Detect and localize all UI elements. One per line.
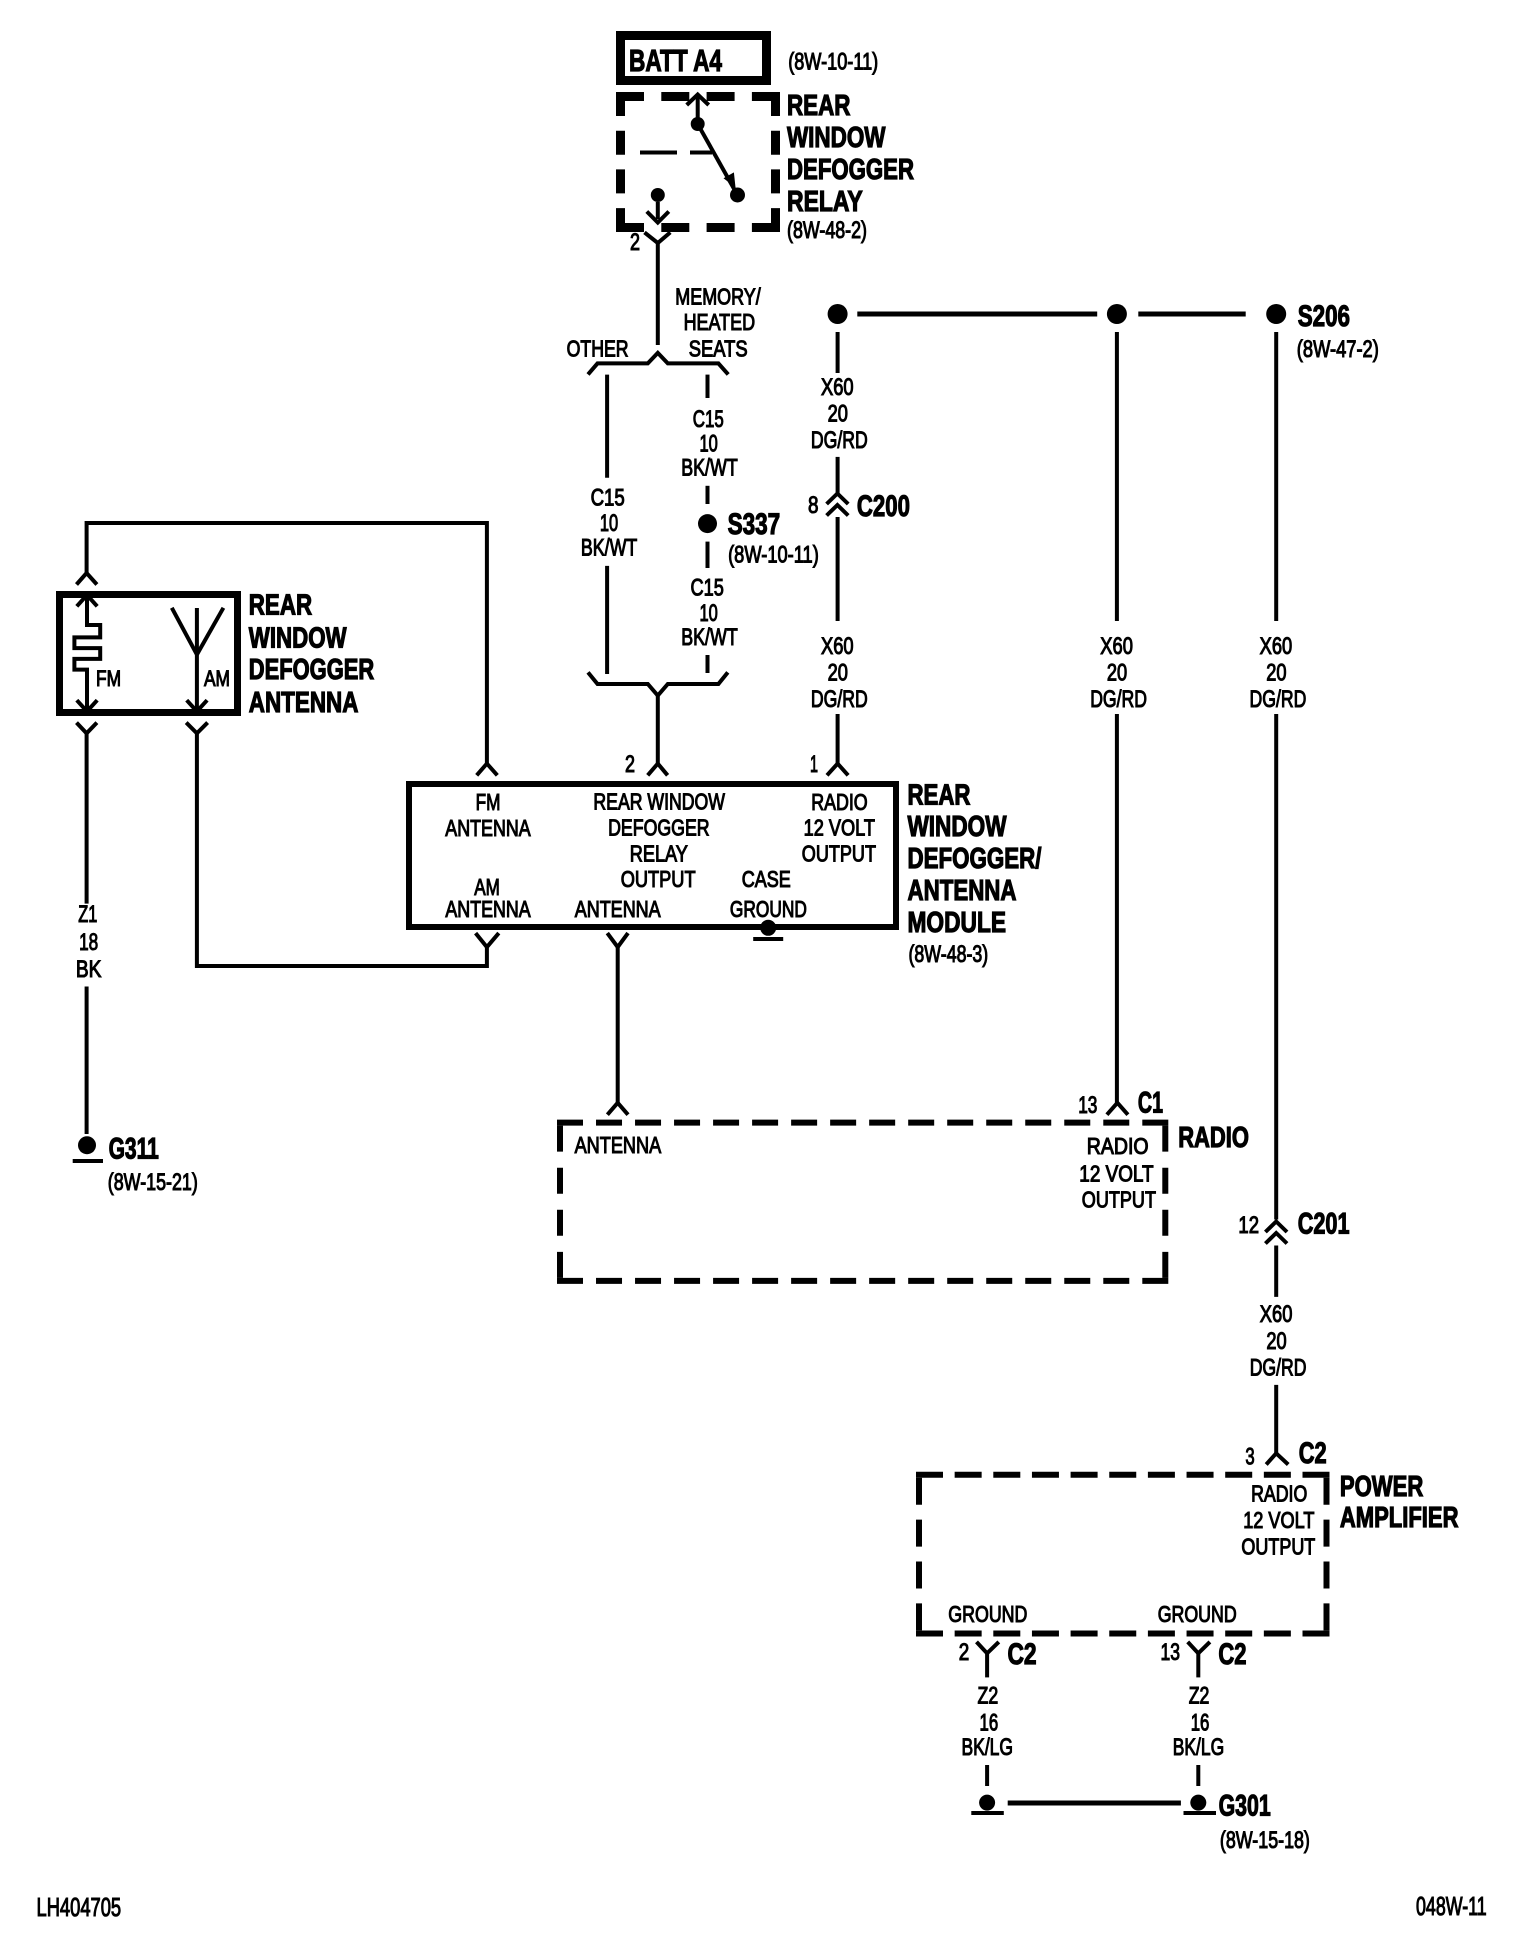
svg-text:OTHER: OTHER (567, 336, 629, 362)
wire X60 branch B (to radio) (1115, 332, 1119, 621)
svg-text:DEFOGGER: DEFOGGER (249, 654, 374, 686)
wire amplifier pin 2 to ground (985, 1765, 989, 1786)
svg-text:16: 16 (980, 1710, 999, 1737)
wire branch A to module pin 1 (836, 714, 840, 764)
label REAR WINDOW DEFOGGER/ANTENNA MODULE (908, 780, 1042, 969)
wire module antenna to radio (616, 947, 620, 1103)
svg-text:BK/LG: BK/LG (1173, 1734, 1225, 1761)
bus wire segment S206 left (857, 312, 1097, 317)
svg-text:RADIO: RADIO (811, 789, 868, 815)
svg-text:16: 16 (1191, 1710, 1210, 1737)
wire label C15 10 BK/WT right lower (681, 575, 738, 651)
ground dot left (971, 1795, 1004, 1813)
FM antenna element (resistive grid symbol) (74, 595, 100, 711)
svg-text:X60: X60 (1260, 633, 1293, 660)
label REAR WINDOW DEFOGGER ANTENNA (249, 590, 374, 719)
svg-text:20: 20 (1107, 660, 1127, 687)
connector half at module FM pin (477, 764, 498, 776)
svg-text:3: 3 (1245, 1444, 1254, 1471)
wire branch C to amplifier pin 3 (1274, 1385, 1278, 1453)
wire X60 branch C upper (1274, 332, 1278, 621)
svg-text:ANTENNA: ANTENNA (575, 1132, 662, 1158)
svg-text:ANTENNA: ANTENNA (575, 896, 662, 922)
svg-text:FM: FM (96, 666, 121, 691)
wire left option branch lower (605, 566, 609, 674)
svg-text:(8W-10-11): (8W-10-11) (788, 49, 878, 76)
options split brace (588, 353, 728, 375)
wire FM antenna path (87, 523, 487, 764)
svg-text:20: 20 (828, 401, 848, 428)
wire label X60 20 DG/RD branch C lower (1250, 1301, 1307, 1382)
svg-text:C2: C2 (1299, 1437, 1327, 1470)
relay armature diagonal with arrowhead (698, 124, 738, 195)
svg-text:RADIO: RADIO (1087, 1133, 1149, 1159)
svg-text:AMPLIFIER: AMPLIFIER (1340, 1502, 1459, 1534)
label MEMORY/HEATED SEATS (675, 284, 761, 362)
svg-text:BK: BK (76, 956, 102, 983)
label REAR WINDOW DEFOGGER RELAY (787, 90, 914, 244)
svg-text:OUTPUT: OUTPUT (802, 840, 876, 866)
svg-text:REAR: REAR (249, 590, 312, 622)
connector half at radio pin 13 (1107, 1103, 1128, 1115)
svg-text:C15: C15 (591, 485, 625, 512)
splice S337 (698, 508, 819, 569)
connector half below amplifier pin 13 (1188, 1642, 1210, 1678)
relay internal dashed line (640, 151, 712, 155)
svg-text:2: 2 (625, 751, 635, 778)
wire right branch to splice (706, 486, 710, 504)
label S206 (1297, 300, 1379, 363)
wire amplifier pin 13 to ground (1196, 1765, 1200, 1786)
wire relay pin2 down to options split (656, 243, 660, 345)
svg-text:13: 13 (1078, 1092, 1097, 1119)
module pin label REAR WINDOW DEFOGGER RELAY OUTPUT (593, 789, 725, 892)
ground G301 (1184, 1790, 1310, 1854)
wire label X60 20 DG/RD branch C (1250, 633, 1307, 713)
relay contact arrow up (687, 95, 709, 119)
wire label C15 10 BK/WT right upper (681, 406, 738, 482)
svg-text:12 VOLT: 12 VOLT (1079, 1160, 1153, 1186)
wire below S337 (706, 542, 710, 568)
svg-text:DG/RD: DG/RD (1250, 686, 1307, 713)
connector half at module pin 2 (648, 764, 668, 776)
label POWER AMPLIFIER (1340, 1471, 1459, 1534)
svg-text:C201: C201 (1298, 1208, 1350, 1241)
svg-text:8: 8 (808, 492, 819, 519)
relay contact dot lower right (730, 188, 745, 203)
wire label C15 10 BK/WT left (581, 485, 638, 562)
svg-text:S206: S206 (1298, 300, 1350, 333)
svg-text:(8W-48-2): (8W-48-2) (787, 217, 867, 244)
svg-text:RADIO: RADIO (1251, 1481, 1307, 1507)
wire linking grounds (1008, 1801, 1181, 1806)
wire label Z1 18 BK (76, 901, 102, 983)
radio pin label RADIO 12 VOLT OUTPUT (1079, 1133, 1156, 1213)
svg-text:GROUND: GROUND (948, 1601, 1027, 1627)
relay K1 dashed box REAR WINDOW DEFOGGER RELAY (616, 92, 780, 232)
connector half at module AM pin (476, 933, 499, 947)
svg-text:BK/WT: BK/WT (681, 624, 738, 651)
svg-text:ANTENNA: ANTENNA (249, 687, 359, 719)
svg-text:(8W-10-11): (8W-10-11) (728, 542, 819, 569)
connector half at radio antenna input (607, 1103, 628, 1115)
svg-text:(8W-15-18): (8W-15-18) (1220, 1827, 1310, 1854)
connector half at module pin 1 (827, 764, 848, 776)
svg-text:OUTPUT: OUTPUT (1082, 1187, 1156, 1213)
svg-text:2: 2 (959, 1639, 970, 1666)
svg-text:BATT A4: BATT A4 (629, 43, 723, 78)
svg-text:ANTENNA: ANTENNA (445, 815, 531, 841)
connector C200 chevrons (827, 494, 849, 516)
AM antenna element (172, 608, 224, 712)
svg-text:BK/WT: BK/WT (681, 455, 738, 482)
ground G311 (73, 1133, 198, 1196)
svg-text:REAR: REAR (908, 780, 971, 812)
wire branch A to C200 (836, 457, 840, 493)
svg-text:20: 20 (1266, 1328, 1286, 1355)
svg-text:(8W-48-3): (8W-48-3) (909, 941, 989, 968)
svg-text:FM: FM (476, 789, 501, 815)
fuse box BATT A4 (621, 36, 767, 81)
svg-text:REAR WINDOW: REAR WINDOW (593, 789, 725, 815)
svg-text:13: 13 (1161, 1639, 1181, 1666)
svg-text:GROUND: GROUND (1158, 1601, 1237, 1627)
wire merge to module pin 2 (656, 696, 660, 764)
connector half above antenna box FM (77, 573, 97, 585)
connector half below amplifier pin 2 (977, 1642, 999, 1678)
svg-text:RELAY: RELAY (787, 186, 863, 218)
svg-text:C1: C1 (1138, 1086, 1163, 1119)
module pin label FM ANTENNA (445, 789, 531, 841)
svg-text:(8W-15-21): (8W-15-21) (108, 1169, 198, 1196)
svg-text:C15: C15 (693, 406, 724, 433)
svg-text:DEFOGGER: DEFOGGER (608, 815, 710, 841)
svg-text:10: 10 (600, 510, 618, 537)
svg-text:GROUND: GROUND (730, 896, 807, 922)
connector half below antenna box FM (77, 723, 97, 734)
svg-text:X60: X60 (1100, 633, 1133, 660)
power amplifier dashed box (916, 1475, 1330, 1634)
wire label X60 20 DG/RD branch B (1090, 633, 1147, 713)
connector half at amplifier pin 3 (1266, 1453, 1288, 1464)
svg-text:DEFOGGER/: DEFOGGER/ (908, 843, 1042, 875)
wire AM antenna path (197, 733, 487, 966)
wire label X60 20 DG/RD branch A lower (811, 633, 868, 713)
svg-text:OUTPUT: OUTPUT (621, 866, 696, 892)
svg-text:REAR: REAR (787, 90, 851, 122)
svg-text:RELAY: RELAY (630, 840, 688, 866)
wire left option branch upper (605, 375, 609, 478)
wire FM to ground lower (85, 987, 89, 1135)
wire branch A below C200 (836, 517, 840, 621)
svg-text:2: 2 (630, 229, 640, 256)
svg-text:HEATED: HEATED (684, 309, 756, 335)
wire right option branch upper (706, 375, 710, 398)
svg-text:DEFOGGER: DEFOGGER (787, 154, 914, 186)
svg-text:X60: X60 (1260, 1301, 1293, 1328)
module pin label AM ANTENNA (445, 874, 531, 922)
wire branch C middle (1274, 714, 1278, 1220)
svg-text:18: 18 (79, 929, 98, 956)
svg-text:OUTPUT: OUTPUT (1241, 1533, 1315, 1559)
svg-text:(8W-47-2): (8W-47-2) (1297, 336, 1379, 363)
svg-text:Z2: Z2 (1189, 1683, 1210, 1710)
wire FM to ground upper (85, 733, 89, 903)
splice S206 dot (1266, 304, 1286, 324)
svg-text:DG/RD: DG/RD (811, 427, 868, 454)
svg-text:1: 1 (810, 751, 818, 778)
svg-text:MODULE: MODULE (908, 907, 1007, 939)
svg-text:LH404705: LH404705 (37, 1892, 122, 1922)
svg-text:BK/LG: BK/LG (962, 1734, 1014, 1761)
svg-text:DG/RD: DG/RD (1090, 686, 1147, 713)
svg-text:12: 12 (1238, 1212, 1259, 1239)
wire label Z2 16 BK/LG right (1173, 1683, 1225, 1762)
svg-text:C200: C200 (857, 490, 910, 523)
connector half below antenna box AM (186, 723, 207, 734)
svg-text:WINDOW: WINDOW (908, 811, 1007, 843)
connector half below relay (645, 232, 671, 243)
svg-text:Z1: Z1 (78, 901, 97, 928)
wire branch B lower (1115, 714, 1119, 1103)
options merge brace (588, 672, 728, 695)
svg-text:X60: X60 (821, 633, 854, 660)
svg-text:ANTENNA: ANTENNA (908, 875, 1017, 907)
svg-text:20: 20 (1266, 660, 1286, 687)
svg-text:12 VOLT: 12 VOLT (1243, 1507, 1314, 1533)
amplifier pin label RADIO 12 VOLT OUTPUT (1241, 1481, 1315, 1560)
connector C201 chevrons (1265, 1222, 1287, 1244)
svg-text:048W-11: 048W-11 (1416, 1891, 1487, 1921)
svg-text:C2: C2 (1218, 1638, 1246, 1671)
rear window defogger / antenna module box (409, 784, 896, 927)
svg-text:POWER: POWER (1340, 1471, 1423, 1503)
svg-text:X60: X60 (821, 374, 854, 401)
svg-text:S337: S337 (728, 508, 781, 541)
svg-text:WINDOW: WINDOW (249, 622, 347, 654)
splice dot middle (1107, 304, 1127, 324)
svg-text:BK/WT: BK/WT (581, 535, 638, 562)
svg-text:Z2: Z2 (978, 1683, 999, 1710)
wire X60 branch A upper (836, 332, 840, 373)
svg-text:DG/RD: DG/RD (1250, 1355, 1307, 1382)
svg-text:MEMORY/: MEMORY/ (675, 284, 761, 310)
svg-text:AM: AM (204, 666, 230, 691)
rear window defogger antenna box (60, 595, 238, 713)
svg-text:RADIO: RADIO (1178, 1122, 1249, 1154)
svg-text:G311: G311 (109, 1133, 159, 1166)
splice dot feeding X60 branch (828, 304, 848, 324)
svg-text:C15: C15 (691, 575, 724, 602)
svg-text:CASE: CASE (742, 866, 791, 892)
svg-text:20: 20 (828, 660, 848, 687)
wire right branch bottom (706, 655, 710, 673)
wire label Z2 16 BK/LG left (962, 1683, 1014, 1762)
svg-text:DG/RD: DG/RD (811, 686, 868, 713)
connector half below module ANTENNA pin (607, 933, 628, 947)
svg-text:10: 10 (700, 600, 718, 627)
bus wire segment S206 right (1138, 312, 1245, 317)
svg-text:WINDOW: WINDOW (787, 122, 886, 154)
svg-text:C2: C2 (1008, 1638, 1037, 1671)
relay pivot dot upper (691, 117, 705, 131)
module pin label RADIO 12 VOLT OUTPUT (802, 789, 876, 866)
case ground symbol (753, 920, 783, 939)
svg-text:ANTENNA: ANTENNA (445, 896, 531, 922)
radio dashed box (557, 1123, 1168, 1281)
svg-text:G301: G301 (1219, 1790, 1271, 1823)
wire branch C below C201 (1274, 1246, 1278, 1297)
wire label X60 20 DG/RD branch A (811, 374, 868, 454)
svg-text:12 VOLT: 12 VOLT (804, 815, 875, 841)
module label CASE GROUND (730, 866, 807, 922)
relay coil-side dot with down arrow (647, 188, 669, 223)
svg-text:SEATS: SEATS (689, 335, 748, 361)
